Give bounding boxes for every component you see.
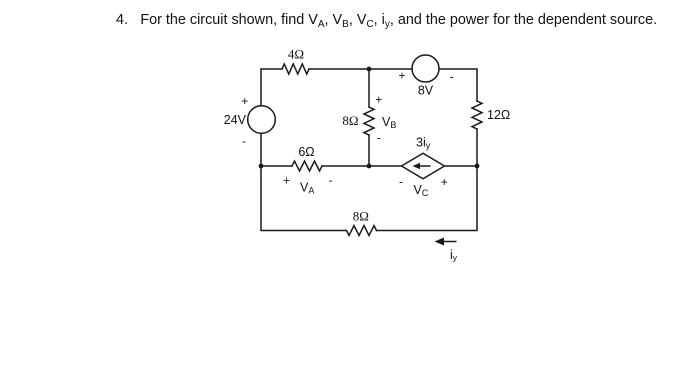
svg-text:+: + [241, 94, 248, 108]
wire: right vertical mid node to bottom-right corner [377, 166, 478, 231]
svg-text:8Ω: 8Ω [342, 113, 358, 128]
wire: 8-ohm to middle node [368, 135, 370, 166]
problem title [116, 12, 657, 30]
svg-text:VC: VC [414, 183, 429, 198]
junction node: right mid [475, 164, 480, 169]
svg-text:+: + [283, 174, 290, 188]
svg-text:24V: 24V [224, 113, 247, 127]
svg-text:-: - [329, 173, 333, 187]
junction node: top middle [367, 67, 372, 72]
wire: 8V source to top-right corner down to 12-ohm [439, 69, 477, 101]
dependent source diamond 3iy [402, 153, 445, 179]
wire: 6-ohm to dependent source [322, 165, 402, 167]
svg-text:6Ω: 6Ω [298, 145, 314, 159]
wire: 4-ohm to 8V source [309, 68, 412, 70]
voltage source V2 8V circle [412, 55, 439, 82]
junction node: middle mid [367, 164, 372, 169]
arrow shaft inside dependent source [419, 165, 431, 167]
svg-text:-: - [399, 175, 403, 189]
wire: middle vertical top node down to 8-ohm [368, 69, 370, 107]
resistor R5 8ohm (bottom) [347, 226, 377, 236]
wire: mid row left node to 6-ohm [261, 165, 292, 167]
svg-text:8Ω: 8Ω [353, 209, 369, 224]
wire: dependent source to right mid node [445, 165, 478, 167]
svg-text:8V: 8V [418, 84, 434, 98]
junction node: left mid [259, 164, 264, 169]
svg-text:+: + [375, 93, 382, 107]
svg-text:-: - [450, 70, 454, 84]
voltage source V1 24V circle (left) [248, 106, 276, 134]
arrow inside dependent source pointing left [413, 163, 421, 169]
svg-text:VB: VB [382, 115, 396, 130]
svg-text:3iy: 3iy [416, 136, 431, 151]
current arrow iy shaft (bottom right) [441, 241, 457, 243]
svg-text:12Ω: 12Ω [487, 108, 510, 122]
svg-text:iy: iy [450, 248, 458, 263]
resistor R4 12ohm (right vertical) [472, 101, 482, 129]
svg-text:+: + [398, 69, 405, 83]
resistor R2 8ohm (middle vertical) [364, 107, 374, 135]
resistor R3 6ohm (middle horizontal) [292, 161, 322, 171]
svg-text:-: - [377, 131, 381, 145]
wire: top-left segment from 24V source up and right to 4-ohm resistor [261, 69, 282, 106]
wire: 12-ohm down to right mid node [476, 129, 478, 166]
current arrow iy head [435, 238, 445, 246]
svg-text:VA: VA [300, 181, 314, 196]
resistor R1 4ohm (top) [282, 64, 309, 74]
svg-text:4Ω: 4Ω [288, 47, 304, 62]
wire: left vertical below 24V to bottom-left corner [261, 133, 347, 230]
svg-text:-: - [242, 134, 246, 148]
svg-text:+: + [441, 175, 448, 189]
